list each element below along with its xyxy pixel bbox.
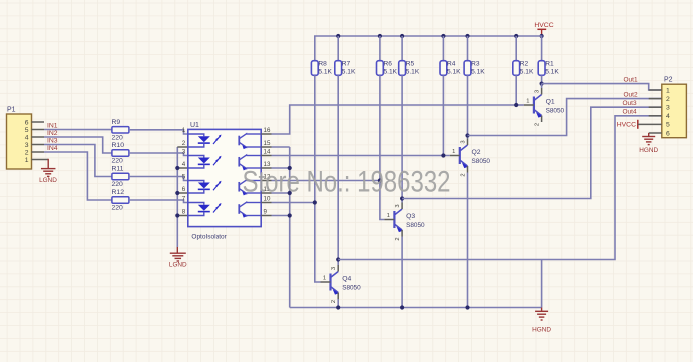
junction pin8 on cathode bus — [175, 213, 179, 217]
junction pin11 bus — [288, 191, 292, 195]
U1 channel 3 collector/emitter links — [247, 180, 262, 182]
junction Out2 tap on Q2 collector — [465, 133, 469, 137]
svg-text:6: 6 — [182, 186, 186, 193]
resistor R6 5.1K — [377, 61, 384, 76]
wire R2 column — [515, 75, 517, 105]
ground LGND at P1 — [41, 168, 56, 170]
svg-text:R2: R2 — [520, 60, 529, 67]
junction pin12 R6 — [378, 178, 382, 182]
wire R10 to U1 pin3 — [129, 153, 188, 156]
pin 6 stub (n.c.) — [32, 121, 45, 123]
svg-text:IN3: IN3 — [47, 138, 58, 145]
svg-text:1: 1 — [452, 149, 455, 155]
svg-text:3: 3 — [666, 105, 670, 112]
U1 channel 2 light arrows — [213, 160, 217, 165]
svg-text:HGND: HGND — [639, 147, 658, 154]
opto-isolator U1 — [188, 129, 261, 226]
U1 channel 2 phototransistor — [238, 157, 240, 167]
svg-text:3: 3 — [331, 267, 337, 270]
junction Out1 node — [540, 82, 544, 86]
wire opto emitter bus pins 15 13 11 9 to rail — [289, 147, 291, 308]
wire R9 to U1 pin1 — [129, 130, 188, 134]
U1 channel 4 collector/emitter links — [247, 202, 262, 204]
svg-text:R5: R5 — [406, 60, 415, 67]
wire Out3 to P2 pin3 — [402, 107, 662, 198]
svg-text:Out4: Out4 — [623, 109, 637, 116]
svg-text:5.1K: 5.1K — [471, 68, 485, 75]
svg-text:220: 220 — [112, 158, 124, 165]
svg-text:R3: R3 — [471, 60, 480, 67]
svg-text:R8: R8 — [318, 60, 327, 67]
U1 right pin 10 stub — [261, 202, 271, 204]
svg-text:6: 6 — [666, 130, 670, 137]
svg-text:3: 3 — [395, 204, 401, 207]
wire IN3 net — [32, 144, 45, 146]
wire Q2 emitter to bottom rail — [467, 173, 469, 308]
junction Q2 emitter rail — [465, 305, 469, 309]
svg-text:5.1K: 5.1K — [406, 68, 420, 75]
transistor Q3 S8050 — [393, 211, 395, 228]
svg-text:P1: P1 — [7, 107, 16, 114]
svg-text:IN2: IN2 — [47, 130, 58, 137]
svg-text:16: 16 — [264, 127, 271, 134]
resistor R4 5.1K — [440, 61, 447, 76]
U1 right pin 13 stub — [261, 167, 271, 169]
svg-text:5.1K: 5.1K — [318, 68, 332, 75]
svg-text:R7: R7 — [342, 60, 351, 67]
svg-text:OptoIsolator: OptoIsolator — [191, 233, 227, 240]
P2 pin6 to HGND — [649, 132, 662, 134]
svg-text:S8050: S8050 — [406, 222, 425, 229]
svg-text:2: 2 — [395, 237, 401, 240]
junction Q4 emitter rail — [336, 305, 340, 309]
svg-text:9: 9 — [264, 209, 268, 216]
wire R3 column to Q2 collector — [467, 75, 469, 138]
U1 channel 4 phototransistor — [238, 204, 240, 214]
wire bottom HGND rail — [290, 307, 542, 309]
svg-text:2: 2 — [25, 149, 29, 156]
svg-text:2: 2 — [182, 140, 186, 147]
svg-text:5.1K: 5.1K — [342, 68, 356, 75]
connector P2 — [662, 84, 687, 138]
junction pin10 R8 — [313, 200, 317, 204]
svg-text:Out3: Out3 — [623, 100, 637, 107]
svg-text:220: 220 — [112, 134, 124, 141]
svg-text:Q2: Q2 — [472, 149, 481, 156]
junction R2 to Q1 base — [514, 103, 518, 107]
svg-text:1: 1 — [182, 127, 186, 134]
svg-text:Q4: Q4 — [342, 276, 351, 283]
wire R6 column to Q3 base — [380, 75, 385, 219]
svg-text:5: 5 — [182, 174, 186, 181]
svg-text:6: 6 — [25, 119, 29, 126]
svg-text:5: 5 — [25, 127, 29, 134]
wire R12 to U1 pin7 — [129, 200, 188, 203]
svg-text:HGND: HGND — [532, 327, 551, 334]
svg-text:LGND: LGND — [169, 262, 187, 269]
junction Out3 tap on Q3 collector — [400, 196, 404, 200]
ground HGND at P2 — [642, 136, 655, 138]
transistor Q4 S8050 — [329, 274, 331, 291]
junction pin13 bus — [288, 166, 292, 170]
resistor R5 5.1K — [399, 61, 406, 76]
resistor R2 5.1K — [513, 61, 520, 76]
svg-text:1: 1 — [323, 276, 326, 282]
P2 pin 3 stub — [649, 106, 662, 108]
svg-text:5: 5 — [666, 122, 670, 129]
svg-text:5.1K: 5.1K — [545, 68, 559, 75]
svg-text:4: 4 — [25, 134, 29, 141]
svg-text:2: 2 — [666, 96, 670, 103]
svg-text:15: 15 — [264, 140, 271, 147]
svg-text:220: 220 — [112, 181, 124, 188]
junction top rail R6 — [378, 34, 382, 38]
U1 right pin 11 stub — [261, 192, 271, 194]
svg-text:U1: U1 — [190, 122, 199, 129]
svg-text:HVCC: HVCC — [534, 22, 553, 29]
svg-text:1: 1 — [666, 87, 670, 94]
svg-text:R1: R1 — [545, 60, 554, 67]
svg-text:4: 4 — [666, 113, 670, 120]
svg-text:R9: R9 — [112, 119, 121, 126]
resistor R3 5.1K — [464, 61, 471, 76]
wire Out2 to P2 pin2 — [468, 99, 662, 136]
resistor R12 220 — [112, 197, 129, 203]
U1 channel 1 collector/emitter links — [247, 133, 262, 135]
U1 channel 1 light arrows — [213, 139, 217, 144]
svg-text:Store No.: 1986332: Store No.: 1986332 — [243, 166, 451, 199]
svg-text:3: 3 — [460, 140, 466, 143]
svg-text:8: 8 — [182, 209, 186, 216]
svg-text:5.1K: 5.1K — [447, 68, 461, 75]
U1 right pin 9 stub — [261, 215, 271, 217]
U1 channel 3 LED — [188, 181, 204, 183]
svg-text:P2: P2 — [664, 77, 673, 84]
svg-text:S8050: S8050 — [472, 158, 491, 165]
wire U1 cathode bus pins 2 4 6 8 — [176, 147, 178, 247]
U1 channel 1 phototransistor — [238, 136, 240, 146]
U1 channel 1 LED — [188, 134, 204, 136]
junction pin4 on cathode bus — [175, 166, 179, 170]
U1 right pin 15 stub — [261, 146, 271, 148]
svg-text:3: 3 — [25, 142, 29, 149]
wire HVCC top rail — [315, 36, 542, 61]
svg-text:2: 2 — [534, 123, 540, 126]
wire IN2 net — [32, 136, 45, 138]
resistor R8 5.1K — [311, 61, 318, 76]
transistor Q2 S8050 — [459, 147, 461, 164]
wire Q3 emitter to bottom rail — [401, 237, 403, 308]
U1 right pin 16 stub — [261, 133, 271, 135]
transistor Q1 S8050 — [533, 97, 535, 114]
wire R7 column to Q4 collector — [337, 75, 339, 265]
wire Q4 emitter to bottom rail — [337, 299, 339, 308]
wire Out1 to P2 pin1 — [542, 84, 662, 90]
svg-text:Out1: Out1 — [624, 76, 638, 83]
resistor R10 220 — [112, 150, 129, 156]
wire R4 column — [442, 75, 444, 155]
U1 channel 4 light arrows — [213, 207, 217, 212]
U1 channel 3 light arrows — [213, 185, 217, 190]
svg-text:3: 3 — [182, 149, 186, 156]
wire U1 pin12 to R6 column — [272, 180, 380, 182]
wire IN4 net — [32, 151, 45, 153]
svg-text:R6: R6 — [384, 60, 393, 67]
resistor R11 220 — [112, 173, 129, 179]
U1 channel 4 LED — [188, 203, 204, 205]
wire P1 pin1 to ground — [32, 159, 49, 161]
P2 pin 4 stub — [649, 115, 662, 117]
resistor R7 5.1K — [335, 61, 342, 76]
svg-text:LGND: LGND — [39, 177, 57, 184]
svg-text:1: 1 — [25, 157, 29, 164]
svg-text:220: 220 — [112, 205, 124, 212]
resistor R1 5.1K — [538, 61, 545, 76]
svg-text:S8050: S8050 — [342, 285, 361, 292]
wire R11 to U1 pin5 — [129, 177, 188, 181]
svg-text:14: 14 — [264, 149, 271, 156]
P2 pin 1 stub — [649, 89, 662, 91]
svg-text:4: 4 — [182, 161, 186, 168]
U1 channel 2 collector/emitter links — [247, 155, 262, 157]
svg-text:5.1K: 5.1K — [520, 68, 534, 75]
U1 channel 3 phototransistor — [238, 182, 240, 192]
svg-text:R10: R10 — [112, 142, 125, 149]
svg-text:Q3: Q3 — [406, 213, 415, 220]
junction top rail R5 — [400, 34, 404, 38]
junction pin9 bus — [288, 213, 292, 217]
wire IN1 net — [32, 129, 45, 131]
svg-text:1: 1 — [526, 99, 529, 105]
junction Out4 tap on Q4 collector — [336, 257, 340, 261]
svg-text:7: 7 — [182, 196, 186, 203]
U1 right pin 14 stub — [261, 155, 271, 157]
svg-text:S8050: S8050 — [546, 108, 565, 115]
wire U1 pin14 to Q2 base with pull-up R4 — [272, 155, 450, 157]
svg-text:5.1K: 5.1K — [384, 68, 398, 75]
wire R1 to Q1 collector and Out1 — [541, 75, 543, 83]
svg-text:IN1: IN1 — [47, 123, 58, 130]
junction top rail R3 — [465, 34, 469, 38]
junction top rail R4 — [441, 34, 445, 38]
junction top rail R2 — [514, 34, 518, 38]
junction Q3 emitter rail — [400, 305, 404, 309]
wire U1 pin16 to Q1 base with pull-up R2 — [272, 105, 517, 134]
ground LGND under U1 — [176, 247, 178, 253]
wire U1 pin10 to R8 column — [272, 202, 315, 204]
svg-text:2: 2 — [460, 173, 466, 176]
svg-text:3: 3 — [534, 90, 540, 93]
svg-text:HVCC: HVCC — [617, 122, 636, 129]
svg-text:R4: R4 — [447, 60, 456, 67]
svg-text:R12: R12 — [112, 189, 125, 196]
resistor R9 220 — [112, 127, 129, 133]
svg-text:1: 1 — [387, 213, 390, 219]
junction pin6 on cathode bus — [175, 191, 179, 195]
svg-text:R11: R11 — [112, 166, 124, 173]
connector P1 — [7, 114, 32, 169]
svg-text:Out2: Out2 — [624, 91, 638, 98]
svg-text:2: 2 — [331, 300, 337, 303]
junction R4 to Q2 base — [441, 153, 445, 157]
wire R5 column to Q3 collector — [401, 75, 403, 202]
wire R8 column to Q4 base — [315, 75, 321, 282]
svg-text:Q1: Q1 — [546, 99, 555, 106]
ground HGND bottom — [541, 308, 543, 312]
U1 right pin 12 stub — [261, 180, 271, 182]
U1 channel 2 LED — [188, 156, 204, 158]
svg-text:IN4: IN4 — [47, 145, 58, 152]
junction top rail R7 — [336, 34, 340, 38]
P2 pin 2 stub — [649, 98, 662, 100]
wire Out4 to P2 pin4 — [338, 116, 662, 260]
